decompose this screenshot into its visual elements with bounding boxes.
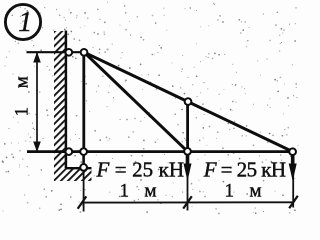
- svg-text:1 м: 1 м: [225, 181, 267, 202]
- svg-text:1 м: 1 м: [12, 69, 33, 116]
- svg-text:1: 1: [18, 7, 32, 38]
- svg-text:F = 25 кН: F = 25 кН: [96, 157, 185, 181]
- svg-text:F = 25 кН: F = 25 кН: [203, 157, 286, 181]
- svg-text:1 м: 1 м: [120, 181, 162, 202]
